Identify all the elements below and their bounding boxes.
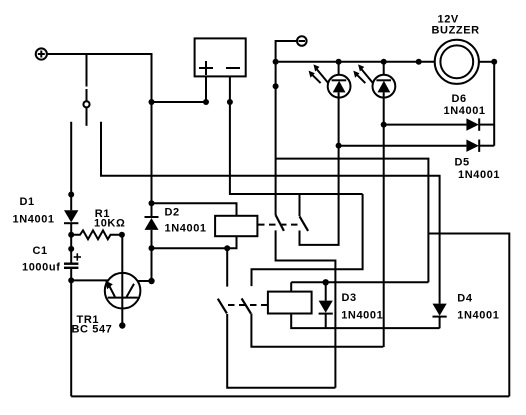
- wire emitter: [121, 309, 123, 326]
- svg-text:1N4001: 1N4001: [13, 213, 55, 225]
- wire bottom rail: [71, 395, 509, 397]
- node R1 left: [68, 232, 74, 238]
- relay K1 dashed link: [258, 224, 299, 226]
- battery BT1: [195, 38, 246, 76]
- svg-text:1N4001: 1N4001: [458, 169, 500, 181]
- relay K1 contact b lower wire: [300, 146, 339, 245]
- terminal plus: [36, 48, 47, 59]
- svg-text:12V: 12V: [438, 13, 459, 25]
- diode D6: [384, 118, 495, 130]
- battery minus mark: [226, 67, 240, 69]
- relay K1 contact a lower wire: [276, 230, 336, 387]
- wire right column D6 D5: [493, 62, 495, 146]
- svg-text:10KΩ: 10KΩ: [94, 218, 125, 230]
- capacitor C1: [64, 264, 78, 397]
- svg-text:1N4001: 1N4001: [444, 105, 486, 117]
- node relay1 bottom branch: [224, 245, 230, 251]
- svg-text:D3: D3: [342, 292, 357, 304]
- svg-text:1N4001: 1N4001: [165, 223, 207, 235]
- node buzzer right: [491, 59, 497, 65]
- diode D2: [145, 217, 159, 281]
- wire switch pair2 post a from relay1 node: [226, 248, 228, 286]
- node LED1 top: [336, 59, 342, 65]
- node emitter end: [119, 322, 125, 328]
- relay K2 contact b lever: [242, 298, 251, 313]
- svg-text:BC 547: BC 547: [72, 323, 113, 335]
- switch S1 pole wire: [86, 108, 88, 126]
- wire minus terminal to negative column: [276, 41, 297, 215]
- svg-text:1000uf: 1000uf: [22, 261, 60, 273]
- node at 230,102: [227, 99, 233, 105]
- LED LD1 arrows: [309, 64, 328, 83]
- node D5 tap on LED1 column: [336, 143, 342, 149]
- node LED2 top: [381, 59, 387, 65]
- svg-text:1N4001: 1N4001: [341, 309, 383, 321]
- wire junction row y102: [152, 101, 207, 103]
- switch S1 contact circle: [83, 101, 89, 107]
- node negative column y86: [273, 83, 279, 89]
- relay K1 contact b post: [299, 194, 301, 216]
- relay K2 contact a lower wire: [227, 314, 335, 388]
- C1 plus mark: [74, 253, 81, 260]
- svg-text:C1: C1: [33, 245, 48, 257]
- terminal minus: [297, 36, 307, 46]
- wire left column top stub: [70, 122, 72, 211]
- node D3 top: [323, 279, 329, 285]
- LED LD1: [328, 62, 351, 146]
- relay K2 dashed link: [228, 304, 268, 306]
- relay K1 coil: [215, 216, 257, 236]
- svg-text:D6: D6: [452, 93, 467, 105]
- node before buzzer: [416, 59, 422, 65]
- svg-text:D5: D5: [455, 157, 470, 169]
- node negative column y62: [273, 59, 279, 65]
- wire relay2 coil bottom: [291, 314, 439, 329]
- node D6 tap on LED2 column: [381, 122, 387, 128]
- svg-text:D1: D1: [20, 196, 35, 208]
- wire y233 branch to far right column: [428, 234, 509, 397]
- relay K1 contact b lever: [300, 216, 309, 231]
- wire top rail y62 to buzzer: [276, 61, 435, 63]
- buzzer BZ1: [435, 40, 479, 84]
- diode D5: [339, 140, 495, 152]
- relay K2 contact b lower wire: [251, 314, 383, 347]
- node R1 right: [119, 232, 125, 238]
- relay K2 coil: [268, 292, 312, 314]
- resistor R1: [71, 230, 122, 239]
- svg-text:D4: D4: [457, 293, 473, 305]
- wire y282 row: [291, 281, 428, 283]
- switch S1 lower stem: [86, 89, 88, 101]
- svg-text:BUZZER: BUZZER: [432, 25, 480, 37]
- transistor TR1: [105, 235, 141, 309]
- wire buzzer right: [479, 61, 494, 63]
- wire base: [71, 279, 108, 281]
- LED LD2: [373, 62, 396, 347]
- node at 206,102: [203, 99, 209, 105]
- svg-text:1N4001: 1N4001: [457, 310, 499, 322]
- wire collector: [138, 280, 152, 282]
- wire long line y175 from switch post to D4: [101, 122, 440, 304]
- wire battery plus lead: [205, 76, 207, 102]
- node C1 plus: [68, 246, 74, 252]
- relay K2 contact a lever: [218, 299, 227, 314]
- wire collector column with D2: [151, 102, 153, 217]
- wire battery minus feed to pair1 loop corner: [252, 194, 363, 286]
- switch S1 stem wire: [86, 54, 88, 87]
- wire from negative column y158 to right side loop: [276, 159, 429, 283]
- svg-text:D2: D2: [165, 207, 180, 219]
- wire from plus terminal to collector column: [47, 54, 152, 102]
- node above D1: [68, 192, 74, 198]
- diode D1: [64, 210, 78, 263]
- diode D3: [319, 282, 333, 328]
- wire relay1 coil top feed: [152, 203, 237, 216]
- wire relay2 coil top feed: [290, 282, 292, 291]
- node collector: [148, 278, 154, 284]
- relay K1 contact a lever: [276, 215, 284, 231]
- wire battery minus lead down to y194: [230, 76, 363, 194]
- node D2 bottom: [149, 245, 155, 251]
- diode D4: [433, 304, 447, 329]
- node base row left: [68, 277, 74, 283]
- node at 151,102: [149, 99, 155, 105]
- node D2 top: [149, 200, 155, 206]
- battery plus mark: [199, 61, 213, 75]
- LED LD2 arrows: [353, 64, 372, 83]
- wire relay1 coil bottom: [152, 236, 237, 248]
